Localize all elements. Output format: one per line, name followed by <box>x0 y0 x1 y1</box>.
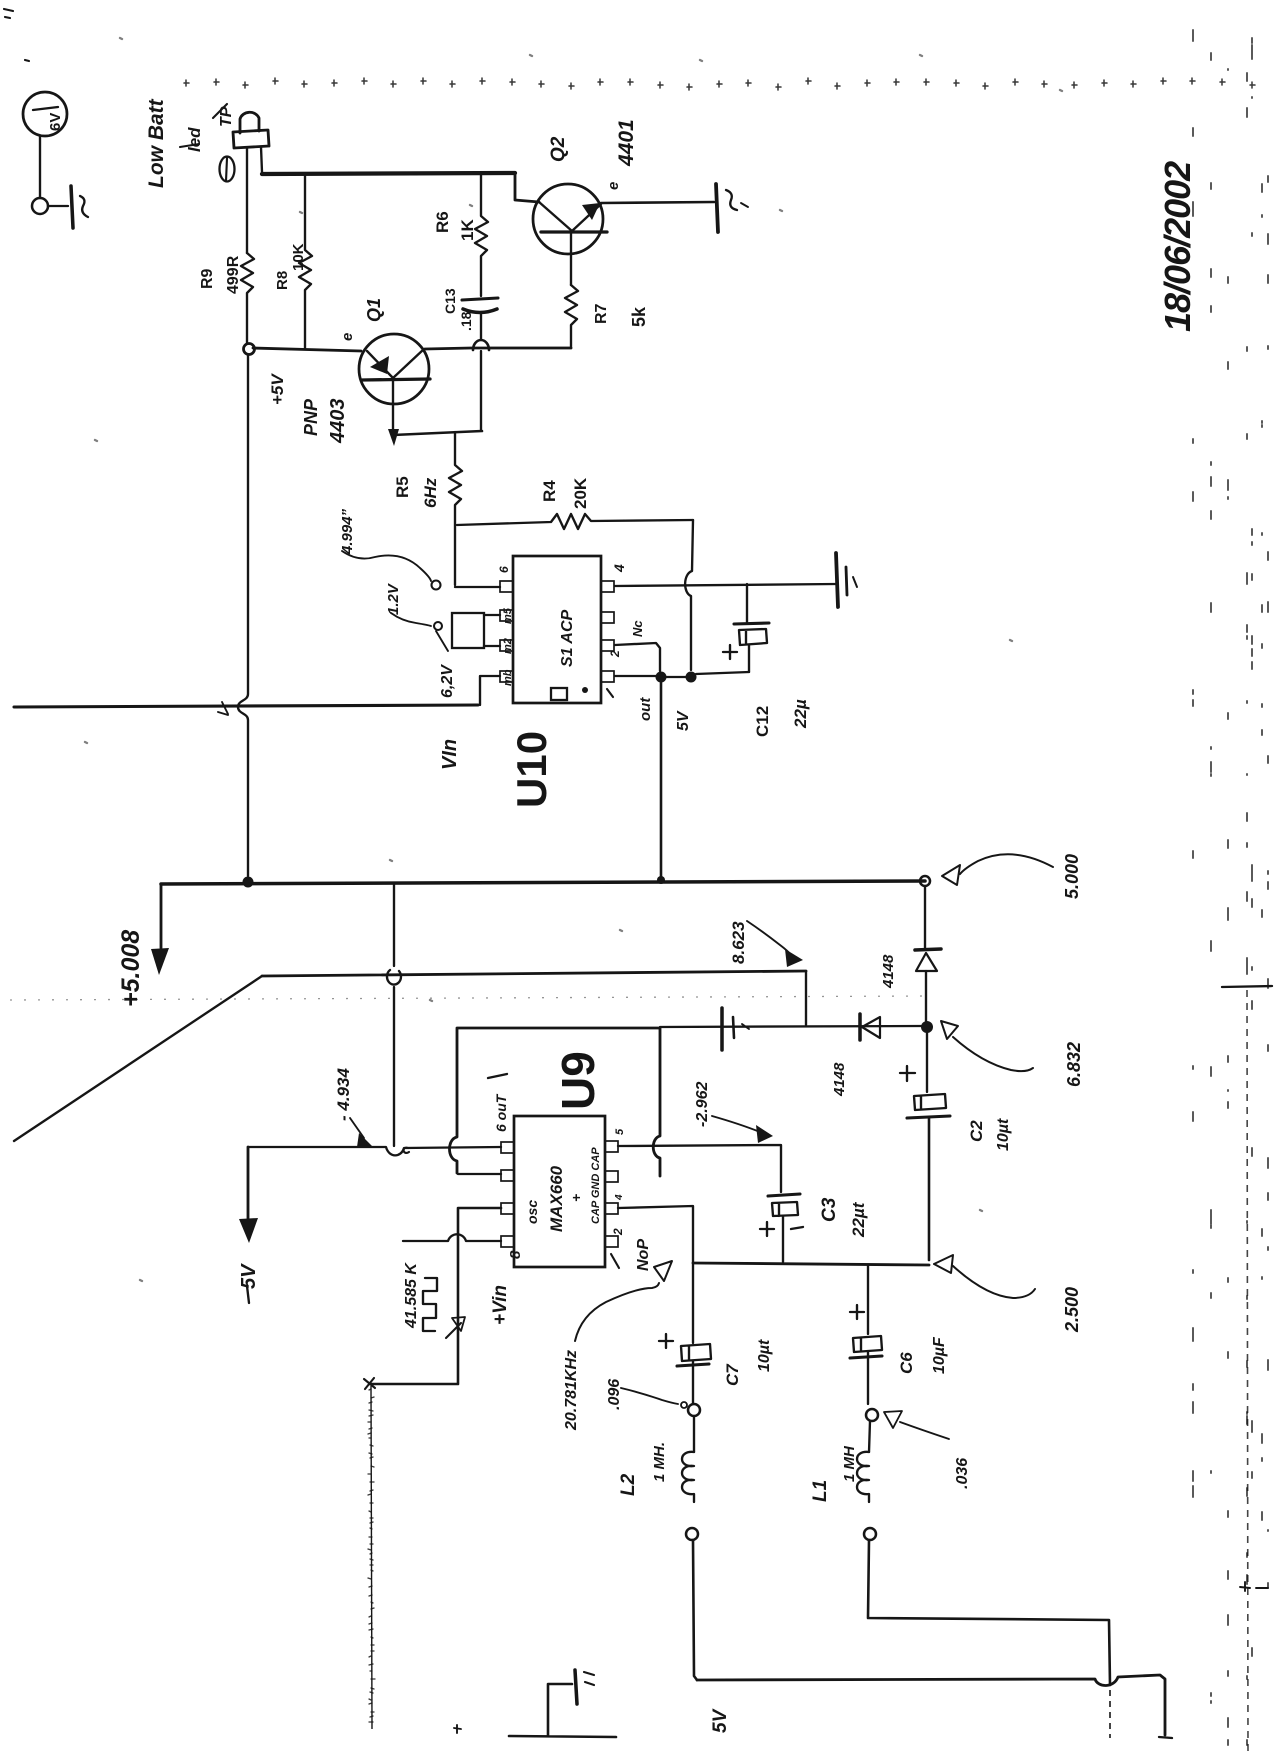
ground (Q2 emitter) <box>716 184 718 232</box>
svg-text:.18: .18 <box>458 311 474 331</box>
svg-text:4.994”: 4.994” <box>339 508 356 555</box>
svg-text:C2: C2 <box>967 1120 986 1142</box>
svg-text:4148: 4148 <box>831 1062 848 1097</box>
wire corner down <box>805 971 807 1025</box>
svg-text:PNP: PNP <box>301 398 321 436</box>
svg-text:Q1: Q1 <box>364 298 384 322</box>
wire U9 pin8 +Vin with hop <box>403 1234 501 1241</box>
capacitor C6 10u <box>853 1336 882 1352</box>
svg-text:5: 5 <box>614 1128 626 1135</box>
svg-text:MAX660: MAX660 <box>547 1165 566 1232</box>
svg-text:2: 2 <box>611 1228 625 1236</box>
faint dotted pencil line mid page <box>10 996 930 1000</box>
wire Q2 emitter to ground <box>601 202 714 203</box>
U9 pin stubs <box>501 1142 514 1153</box>
resistor R5 6Hz <box>449 432 462 585</box>
wire 5V node down to +5 bus <box>660 682 663 877</box>
svg-text:6,2V: 6,2V <box>439 664 456 698</box>
resistor R7 5k <box>489 285 578 348</box>
test point circle .096 <box>688 1404 700 1416</box>
wire C13 to collector rail <box>480 312 482 430</box>
label 2.500 callout <box>934 1255 953 1273</box>
svg-text:499R: 499R <box>225 255 242 294</box>
junction mark <box>364 1378 375 1389</box>
U10 pin stubs left <box>500 581 513 592</box>
svg-text:+5.008: +5.008 <box>117 930 145 1007</box>
wire jog to Q2 base <box>515 173 539 202</box>
svg-text:Nc: Nc <box>630 620 645 637</box>
svg-text:U10: U10 <box>508 731 555 808</box>
svg-text:5V: 5V <box>238 1263 260 1289</box>
svg-text:22µt: 22µt <box>849 1201 868 1238</box>
svg-text:R4: R4 <box>540 480 559 502</box>
svg-text:10µt: 10µt <box>995 1118 1012 1151</box>
wire to ground <box>48 205 68 207</box>
svg-text:10µt: 10µt <box>756 1339 773 1372</box>
svg-text:osc: osc <box>524 1200 540 1224</box>
ground (bottom left) <box>575 1670 577 1704</box>
node dot (R4 junction) <box>686 672 697 683</box>
svg-text:5V: 5V <box>710 1708 731 1733</box>
svg-text:8: 8 <box>507 1250 524 1259</box>
wire L2 to bottom 5V rail <box>693 1540 697 1680</box>
wire U9 pin6 (LV) <box>248 1147 501 1155</box>
capacitor C7 10u <box>681 1344 711 1361</box>
svg-text:-2.962: -2.962 <box>694 1082 711 1127</box>
svg-text:22µ: 22µ <box>791 699 810 729</box>
junction open circle node <box>244 344 255 355</box>
wire ground snake <box>509 1684 616 1737</box>
crease line (vertical fold artifact) <box>371 1386 372 1729</box>
svg-text:.036: .036 <box>954 1458 971 1489</box>
svg-text:1.2V: 1.2V <box>385 582 402 615</box>
svg-text:2: 2 <box>608 650 622 658</box>
svg-text:2.500: 2.500 <box>1062 1287 1082 1333</box>
svg-text:C3: C3 <box>819 1197 840 1222</box>
node dot (out/5V) <box>656 672 667 683</box>
svg-text:6Hz: 6Hz <box>421 477 440 508</box>
svg-text:S1 ACP: S1 ACP <box>559 609 576 667</box>
top ruler tick marks (scan artifact row) <box>184 78 1255 90</box>
svg-text:NoP: NoP <box>635 1239 652 1271</box>
svg-text:+Vin: +Vin <box>490 1285 511 1325</box>
svg-text:CAP GND CAP: CAP GND CAP <box>590 1147 602 1224</box>
IC U9 MAX660 box <box>514 1116 605 1267</box>
svg-text:+: + <box>568 1194 584 1202</box>
wire bottom 5V rail with dip under L1 wire <box>697 1675 1165 1735</box>
wire between nodes <box>666 676 686 678</box>
svg-text:U9: U9 <box>552 1051 604 1110</box>
LED polarity mark circle <box>220 157 235 182</box>
capacitor C12 22u <box>746 584 748 622</box>
svg-text:4: 4 <box>614 1194 625 1201</box>
wire vertical from +5 bus with hops <box>387 884 401 1146</box>
U10 pin2 wire to 5V node <box>615 643 660 671</box>
svg-text:20K: 20K <box>571 477 590 509</box>
resistor R9 499R <box>241 253 254 344</box>
battery source 6V circle <box>23 92 67 136</box>
svg-text:41.585 K: 41.585 K <box>403 1262 420 1329</box>
node dot 6.832 <box>921 1021 933 1033</box>
ground (U10 pin4) <box>836 553 838 607</box>
svg-text:m2: m2 <box>502 638 514 654</box>
diode D 4148 (to 5.000 bus) <box>915 949 941 950</box>
inductor L2 1MH <box>693 1416 695 1452</box>
LED D1 package <box>240 112 259 133</box>
wire base rail y348 left <box>253 348 361 351</box>
wire VIN bus from page edge <box>14 705 478 707</box>
bus junction dots <box>243 877 254 888</box>
svg-text:1 MH: 1 MH <box>841 1445 858 1482</box>
small edge mark <box>1222 986 1272 987</box>
wire diagonal from page corner <box>14 976 262 1141</box>
ground (battery) <box>71 186 73 228</box>
svg-text:led: led <box>185 127 204 152</box>
node circle below L1 <box>864 1528 876 1540</box>
resistor R6 1K <box>475 174 488 296</box>
op-amp / regulator U10 box <box>513 556 601 703</box>
dashed continuation to page edge <box>1109 1690 1111 1738</box>
svg-text:5.000: 5.000 <box>1062 854 1082 899</box>
capacitor C13 .18 <box>462 298 498 300</box>
wire U9 pin3 to C7 rail <box>618 1206 693 1343</box>
resistor R4 20K <box>457 514 693 529</box>
wire low rail y1262 <box>693 1263 929 1265</box>
svg-text:Q2: Q2 <box>548 136 569 162</box>
capacitor C2 10u <box>926 1032 928 1092</box>
U10 pin1 stub wire <box>615 675 656 677</box>
svg-text:L2: L2 <box>618 1473 639 1496</box>
svg-text:R5: R5 <box>393 476 412 498</box>
svg-text:.096: .096 <box>606 1379 623 1410</box>
svg-text:6V: 6V <box>47 113 64 131</box>
wire U9 pin5 to C3 <box>618 1145 781 1192</box>
svg-text:Low Batt: Low Batt <box>145 98 168 188</box>
wire U10 mb pin riser <box>480 676 500 705</box>
svg-text:5V: 5V <box>675 710 692 731</box>
svg-text:R7: R7 <box>593 303 610 324</box>
svg-text:R8: R8 <box>274 271 291 290</box>
wire U9 pin7 to osc loop <box>458 1173 501 1175</box>
svg-text:5k: 5k <box>629 306 649 327</box>
svg-text:8.623: 8.623 <box>729 921 748 964</box>
LED cathode lead wire <box>246 148 248 253</box>
svg-text:4401: 4401 <box>615 119 638 167</box>
svg-text:4403: 4403 <box>327 399 349 445</box>
capacitor C3 22u <box>768 1194 800 1196</box>
ground (small) <box>720 1008 724 1050</box>
svg-text:6: 6 <box>497 566 511 573</box>
svg-text:C12: C12 <box>753 706 772 737</box>
svg-text:R9: R9 <box>199 268 216 289</box>
svg-text:mb: mb <box>502 669 514 686</box>
svg-text:20.781KHz: 20.781KHz <box>563 1350 580 1431</box>
svg-text:VIn: VIn <box>439 739 461 770</box>
wire R5 to U10 pin6 <box>455 586 500 588</box>
transistor Q2 4401 <box>533 184 603 254</box>
svg-text:1K: 1K <box>458 219 477 241</box>
svg-text:C7: C7 <box>723 1363 742 1386</box>
svg-text:out: out <box>637 697 654 721</box>
svg-text:C13: C13 <box>442 288 458 314</box>
svg-text:10µF: 10µF <box>931 1336 948 1374</box>
top-left corner marks <box>4 9 29 61</box>
inductor L1 1MH <box>869 1421 870 1452</box>
svg-text:6.832: 6.832 <box>1064 1042 1084 1087</box>
wire U10 pin4 to ground <box>615 584 836 586</box>
+5.008 arrow <box>160 884 163 948</box>
wire U9 osc loop (outer box) <box>450 1028 661 1176</box>
wire top rail <box>262 173 515 174</box>
svg-text:R6: R6 <box>433 211 452 233</box>
transistor Q1 PNP 4403 <box>359 334 429 404</box>
wire 8.623 horizontal <box>262 971 806 976</box>
wire R9 node down (long vertical) with hop at VIN bus <box>238 355 248 876</box>
label .036 callout <box>884 1411 902 1428</box>
svg-text:1 MH.: 1 MH. <box>651 1442 668 1482</box>
U10 pin stubs right <box>601 581 614 592</box>
LED anode lead wire <box>261 147 262 172</box>
wire gnd row y1026 <box>660 1026 921 1027</box>
wire from 6V source <box>39 136 41 198</box>
svg-text:L1: L1 <box>810 1480 831 1502</box>
wire C6 riser <box>867 1265 869 1334</box>
scattered scan specks <box>85 38 1062 1281</box>
wire bus to diode <box>924 886 926 948</box>
svg-text:+5V: +5V <box>268 373 287 405</box>
svg-text:10K: 10K <box>290 243 307 271</box>
svg-text:e: e <box>339 333 356 341</box>
U10 pin jumper loop <box>452 613 484 648</box>
hop arc (C13 wire crossing) <box>473 340 489 350</box>
svg-text:- 4.934: - 4.934 <box>334 1068 353 1121</box>
svg-text:4148: 4148 <box>880 954 897 989</box>
5V supply arrow left <box>247 1147 250 1220</box>
wire y348 right with hop over C13 wire <box>425 348 571 349</box>
node circle below L2 <box>686 1528 698 1540</box>
svg-text:18/06/2002: 18/06/2002 <box>1157 161 1198 332</box>
test point circle .036 <box>866 1409 878 1421</box>
wire U9 pin (osc cap) down left side <box>370 1208 501 1384</box>
svg-text:4: 4 <box>611 564 627 573</box>
svg-text:e: e <box>605 182 622 190</box>
svg-text:6 ouT: 6 ouT <box>493 1093 509 1132</box>
label 6.832 callout <box>941 1021 958 1039</box>
wire L1 down and right <box>868 1540 1110 1685</box>
resistor R8 10K <box>299 176 312 348</box>
node open circle <box>32 198 48 214</box>
svg-text:C6: C6 <box>897 1352 916 1374</box>
diode D 4148 (series) <box>858 1014 862 1040</box>
wire Q1 collector rail <box>393 431 482 435</box>
wire +5.008 output bus <box>161 881 925 884</box>
wire R4 down to 5V node with hop over pin4 wire <box>685 520 693 670</box>
right page-edge dotted artifacts <box>1193 30 1268 1745</box>
bus end open circle <box>920 876 930 886</box>
svg-text:m5: m5 <box>502 607 514 624</box>
